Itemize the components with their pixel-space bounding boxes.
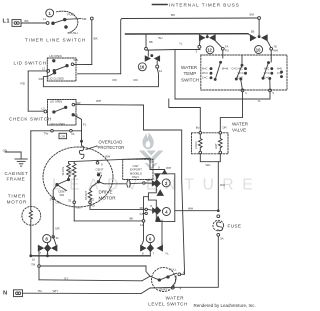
- wire timer motor to bottom bus, label 1M: [30, 222, 36, 262]
- label CAP EXPORT MODELS ONLY: [130, 164, 142, 179]
- svg-text:9: 9: [101, 162, 103, 166]
- wire B1 bus2 tap down to terminal 5, label YL: [175, 50, 270, 104]
- svg-text:EMPTY: EMPTY: [160, 288, 170, 292]
- wire contact box bottom to cam 6 right, label YL: [162, 220, 169, 255]
- svg-text:YL: YL: [179, 42, 183, 46]
- svg-text:START: START: [84, 191, 88, 200]
- svg-text:OR: OR: [55, 227, 60, 231]
- water valve hot solenoid, label OR: [214, 125, 227, 153]
- timer cam circle 4: [162, 208, 170, 216]
- motor terminal 9: [96, 155, 110, 167]
- svg-text:SWITCH: SWITCH: [181, 78, 199, 83]
- timer contact 16: [145, 50, 162, 73]
- water temp switch dashed box: [201, 55, 287, 90]
- timer cam circle 2: [162, 179, 170, 187]
- timer contact mid triangle: [157, 190, 163, 195]
- svg-text:FRAME: FRAME: [7, 177, 26, 182]
- wire bus2 tap to water temp feed, label BU YL: [146, 36, 200, 50]
- svg-text:FUSE: FUSE: [228, 224, 242, 229]
- wire check switch SW to right (WH): [75, 99, 144, 105]
- wire connector to water level switch common: [40, 266, 159, 281]
- timer contact 2 diamond: [154, 180, 161, 187]
- svg-text:OR: OR: [61, 135, 66, 139]
- svg-text:6: 6: [149, 236, 152, 241]
- wire motor WH to contact box: [150, 158, 165, 170]
- wire TW connector down to timer motor: [30, 131, 32, 207]
- timer contact 8: [38, 243, 57, 257]
- svg-text:OR: OR: [56, 201, 61, 205]
- wire lid switch SW to right riser: [74, 63, 92, 65]
- svg-text:BK: BK: [25, 19, 30, 23]
- water temp switch contacts group 3: [262, 58, 283, 89]
- timer motor: [22, 206, 41, 225]
- motor winding header wire: [69, 158, 151, 161]
- svg-text:H=C: H=C: [238, 67, 244, 71]
- wire lid switch common to left riser, label RD: [21, 71, 47, 111]
- svg-text:TEMP: TEMP: [184, 71, 197, 76]
- svg-text:RED: RED: [69, 168, 73, 174]
- svg-text:M=W: M=W: [222, 67, 229, 71]
- svg-text:FL: FL: [83, 123, 87, 127]
- svg-text:10: 10: [256, 47, 261, 52]
- wire lid switch RD throw down and right, label RD: [39, 68, 159, 86]
- svg-text:L2: L2: [42, 66, 46, 70]
- svg-text:TIMER: TIMER: [8, 194, 27, 199]
- svg-text:BU: BU: [77, 206, 81, 210]
- timer cam circle 12: [206, 46, 214, 54]
- water valve dashed box: [192, 133, 229, 154]
- svg-text:WH: WH: [220, 183, 225, 187]
- svg-text:WATER: WATER: [232, 122, 249, 127]
- svg-text:WH: WH: [188, 206, 193, 210]
- check switch: [42, 100, 81, 126]
- label WATER VALVE: [232, 122, 249, 133]
- connector plug L1: [12, 20, 21, 27]
- wire riser lid RD throw to top bus: [121, 19, 123, 74]
- wire B2 branch to cold valve: [169, 99, 201, 131]
- legend internal timer buss: [153, 3, 240, 8]
- svg-text:9: 9: [158, 165, 160, 169]
- svg-text:YL: YL: [258, 99, 262, 103]
- timer contact 2 input arrow: [152, 181, 156, 186]
- svg-text:BK: BK: [94, 37, 99, 41]
- svg-text:C=C: C=C: [202, 76, 208, 80]
- svg-text:GY: GY: [64, 276, 68, 280]
- svg-text:7: 7: [40, 251, 42, 255]
- svg-text:Rendered by LeadVenture, Inc.: Rendered by LeadVenture, Inc.: [194, 303, 256, 308]
- svg-text:8: 8: [142, 251, 144, 255]
- timer cam circle 1: [46, 9, 54, 17]
- wire water valve returns WH to fuse: [200, 154, 225, 212]
- svg-text:4: 4: [165, 209, 168, 214]
- svg-text:3: 3: [196, 50, 198, 54]
- label OVERLOAD PROTECTOR: [98, 140, 125, 150]
- lid switch: [42, 54, 78, 81]
- timer cam circle 8: [43, 235, 51, 243]
- capacitor C1: [127, 178, 153, 187]
- svg-text:WATER: WATER: [166, 296, 185, 301]
- timer cam circle 6: [146, 234, 154, 242]
- svg-text:H=C: H=C: [264, 67, 270, 71]
- capacitor export box dashed: [123, 159, 153, 179]
- timer contact 10, label 5B: [248, 30, 278, 58]
- wire check switch M down to overload: [73, 115, 87, 142]
- motor red winding: [69, 162, 76, 180]
- timer contact 4, labels RD F2: [140, 204, 161, 221]
- motor slow winding: [61, 162, 70, 181]
- svg-text:W=C: W=C: [238, 71, 244, 75]
- svg-text:ONLY: ONLY: [132, 175, 140, 179]
- drive motor dashed circle: [43, 147, 113, 207]
- svg-text:HOT: HOT: [214, 143, 218, 149]
- svg-text:7M: 7M: [31, 262, 36, 266]
- svg-text:SW: SW: [60, 193, 65, 197]
- fuse F1: [213, 215, 241, 241]
- internal timer bus 2: [126, 33, 249, 35]
- svg-text:MOTOR: MOTOR: [99, 195, 117, 200]
- svg-text:12: 12: [159, 69, 163, 73]
- water level switch: [152, 268, 185, 292]
- svg-text:CHECK SWITCH: CHECK SWITCH: [9, 116, 52, 121]
- water temp switch contacts group 1: [202, 61, 237, 80]
- svg-text:W=C: W=C: [264, 71, 270, 75]
- ground symbol cabinet frame: [15, 159, 27, 166]
- label WATER TEMP SWITCH: [181, 65, 199, 83]
- wire top bus down to cam 10: [258, 19, 260, 36]
- svg-text:WH: WH: [105, 155, 110, 159]
- motor start winding: [84, 190, 92, 201]
- wire L1 to timer line switch, label BK: [21, 19, 46, 23]
- svg-text:16: 16: [32, 258, 36, 262]
- svg-text:WH: WH: [166, 166, 171, 170]
- svg-text:LID OPEN: LID OPEN: [50, 54, 62, 58]
- svg-text:H=E: H=E: [277, 67, 283, 71]
- motor red winding to terminal 32, label BU: [68, 180, 81, 221]
- svg-text:BAT: BAT: [147, 178, 153, 182]
- svg-text:WH: WH: [53, 289, 58, 293]
- svg-text:RD: RD: [39, 77, 44, 81]
- svg-text:RD: RD: [140, 206, 144, 210]
- wire fuse to water level switch empty: [175, 236, 219, 287]
- svg-text:31: 31: [56, 236, 60, 240]
- svg-text:TIMER LINE SWITCH: TIMER LINE SWITCH: [25, 38, 86, 43]
- internal timer bottom bus: [31, 255, 151, 257]
- connector plug N: [14, 290, 23, 297]
- svg-text:LID OPEN: LID OPEN: [50, 100, 62, 104]
- svg-text:3A: 3A: [220, 237, 224, 241]
- svg-text:FL: FL: [72, 132, 76, 136]
- wire check switch staircase to water level switch full: [144, 105, 185, 274]
- svg-text:RD: RD: [134, 78, 138, 82]
- timer cam circle 10: [255, 46, 263, 54]
- svg-text:BK: BK: [130, 217, 134, 221]
- water valve cold solenoid, label BU: [194, 126, 202, 154]
- svg-text:MOTOR: MOTOR: [7, 200, 27, 205]
- svg-text:N: N: [3, 290, 7, 296]
- svg-text:FULL: FULL: [170, 268, 177, 272]
- svg-text:H=C: H=C: [202, 67, 208, 71]
- svg-text:5M: 5M: [82, 17, 87, 21]
- svg-text:WH: WH: [206, 163, 211, 167]
- svg-text:OVERLOAD: OVERLOAD: [99, 140, 123, 145]
- top bus BK: [123, 13, 261, 20]
- svg-text:RD: RD: [91, 203, 95, 207]
- wire motor 32 to contact box, label 12: [74, 197, 148, 227]
- svg-text:WATER: WATER: [181, 65, 198, 70]
- svg-text:DRIVE: DRIVE: [99, 190, 113, 195]
- svg-text:L1: L1: [43, 17, 47, 21]
- timer line switch: [43, 11, 93, 35]
- water temp switch bottom terminal 5: [269, 89, 275, 95]
- motor plug connector TW/FL: [31, 130, 82, 139]
- timer contact 12: [196, 34, 229, 58]
- motor terminal 22 label RD: [89, 198, 148, 210]
- svg-text:7: 7: [153, 251, 155, 255]
- svg-text:3: 3: [50, 198, 52, 202]
- svg-text:BK: BK: [171, 13, 176, 17]
- svg-text:7M: 7M: [38, 289, 43, 293]
- svg-text:W=C: W=C: [202, 71, 208, 75]
- svg-text:RD: RD: [113, 78, 117, 82]
- wire lid RD throw to riser: [78, 73, 121, 75]
- timer contact 6: [141, 243, 163, 256]
- svg-text:CABINET: CABINET: [5, 171, 29, 176]
- svg-text:12: 12: [207, 48, 212, 53]
- svg-text:1: 1: [48, 11, 51, 16]
- svg-text:8: 8: [150, 204, 152, 208]
- wire from timer line switch down to lid switch, label BK: [92, 20, 99, 65]
- overload protector leader line: [86, 146, 97, 150]
- motor centrifugal switch 1: [50, 180, 69, 205]
- svg-text:PUSH: PUSH: [70, 31, 78, 35]
- svg-text:WH: WH: [273, 49, 278, 53]
- ground wire GN: [3, 149, 22, 159]
- label DRIVE MOTOR: [99, 190, 117, 201]
- timer contact box: [148, 174, 174, 222]
- svg-text:LEVEL SWITCH: LEVEL SWITCH: [148, 302, 188, 307]
- wire N to water level switch, labels 7M WH: [23, 287, 175, 293]
- wire motor OR to cam 8: [52, 200, 60, 245]
- label TIMER MOTOR: [7, 194, 27, 205]
- svg-text:16: 16: [140, 65, 145, 70]
- timer cam 16 drop from bus 2, label 5B: [145, 34, 153, 50]
- wire terminal 4 to hot valve: [220, 92, 242, 131]
- svg-text:SLOW: SLOW: [61, 167, 65, 176]
- wire contact box to fuse, label WH: [175, 206, 219, 210]
- svg-text:PROTECTOR: PROTECTOR: [98, 145, 125, 150]
- svg-text:COLD: COLD: [194, 141, 198, 149]
- svg-text:32: 32: [68, 199, 72, 203]
- svg-text:C=C: C=C: [232, 67, 238, 71]
- svg-text:BU: BU: [159, 36, 163, 40]
- svg-text:LID SWITCH: LID SWITCH: [14, 61, 47, 66]
- svg-text:YL: YL: [165, 252, 169, 256]
- svg-text:Bu: Bu: [196, 126, 200, 130]
- svg-text:8: 8: [45, 237, 48, 242]
- label WATER LEVEL SWITCH: [148, 296, 188, 307]
- svg-text:5B: 5B: [251, 30, 255, 34]
- svg-text:PU: PU: [225, 49, 229, 53]
- svg-text:5M: 5M: [250, 13, 255, 17]
- svg-text:5: 5: [273, 91, 275, 95]
- svg-text:22: 22: [91, 198, 95, 202]
- water temp switch contacts group 2: [235, 55, 246, 89]
- timer contact 2 top feed arrow: [162, 170, 166, 174]
- timer cam circle 16: [138, 63, 146, 71]
- svg-text:WH: WH: [96, 99, 101, 103]
- motor centrifugal switch 2: [90, 168, 126, 190]
- timer contact 2 upper triangle: [155, 174, 160, 179]
- svg-text:L1: L1: [3, 19, 11, 25]
- watermark logo: [139, 133, 163, 170]
- wire contact box 12 down to cam 6 left: [142, 222, 144, 245]
- overload protector: [79, 141, 84, 158]
- svg-text:OR: OR: [222, 125, 226, 129]
- svg-text:LID CLOSED: LID CLOSED: [50, 122, 66, 126]
- svg-text:INTERNAL TIMER BUSS: INTERNAL TIMER BUSS: [169, 3, 240, 8]
- water temp switch bottom terminal 4: [241, 89, 247, 95]
- svg-text:TW: TW: [44, 132, 49, 136]
- svg-text:SW: SW: [74, 58, 79, 62]
- svg-text:VALVE: VALVE: [232, 128, 246, 133]
- svg-text:RD: RD: [21, 82, 26, 86]
- wire cam 8 left throw down, connector, label 7M GY: [31, 252, 142, 281]
- svg-text:LID CLOSED: LID CLOSED: [49, 77, 65, 81]
- svg-text:4: 4: [245, 91, 247, 95]
- svg-text:5B: 5B: [149, 40, 153, 44]
